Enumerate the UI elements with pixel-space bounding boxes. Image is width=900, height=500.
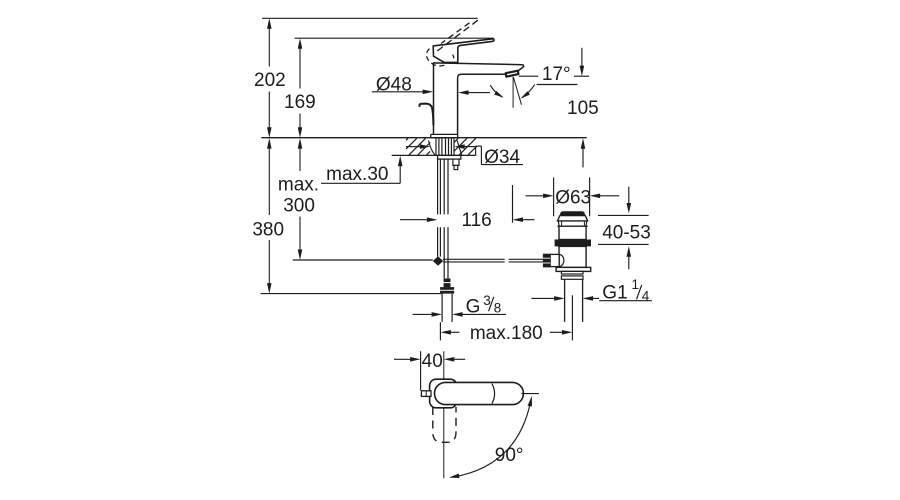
svg-text:8: 8 <box>494 300 502 315</box>
extension line (169 ref, handle top) <box>294 37 493 39</box>
Ø34 label leader <box>475 146 477 155</box>
dimension 380 vertical line <box>267 138 272 149</box>
svg-text:300: 300 <box>283 195 315 216</box>
top view: lever <box>435 382 524 404</box>
water stream plumb line <box>512 77 514 108</box>
dimension Ø63 <box>553 177 555 216</box>
faucet spout underside <box>458 74 506 134</box>
dimension max.180 <box>440 330 451 335</box>
dimension 116 <box>400 219 427 221</box>
svg-text:90°: 90° <box>495 445 524 466</box>
svg-text:Ø48: Ø48 <box>376 75 412 96</box>
dimension 169 vertical line <box>298 38 303 49</box>
water stream 17 degree line <box>513 77 521 105</box>
pop-up pull rod knob <box>419 104 433 125</box>
extension line hose-link level (max.300 ref) <box>293 259 433 261</box>
svg-text:116: 116 <box>461 210 491 231</box>
countertop hatching left <box>406 138 408 140</box>
svg-text:169: 169 <box>284 92 316 113</box>
angle arc left <box>490 85 502 97</box>
lever handle (rest position) <box>433 39 494 63</box>
dimension 202 vertical line <box>267 18 272 29</box>
pop-up rod vertical <box>437 159 439 214</box>
countertop bottom line <box>392 154 476 156</box>
supply hose vertical <box>443 159 445 214</box>
svg-text:max.30: max.30 <box>326 164 388 185</box>
lever handle raised position (dashed) <box>437 20 478 51</box>
extension line top (202 ref, raised handle top) <box>262 17 478 19</box>
dimension Ø34 arrows <box>406 146 421 148</box>
svg-text:1: 1 <box>632 277 640 292</box>
drain valve knurled nut <box>543 254 550 268</box>
svg-text:G1: G1 <box>602 283 627 304</box>
svg-text:380: 380 <box>252 219 284 240</box>
countertop surface line <box>261 137 586 139</box>
horizontal pop-up linkage rod <box>443 258 505 260</box>
top view: handle rotated position (dashed) <box>433 407 456 442</box>
top view: 90 degree arc <box>522 393 540 395</box>
angle arc right <box>522 85 535 98</box>
mounting stud <box>453 159 459 165</box>
svg-text:40-53: 40-53 <box>602 222 651 243</box>
supply hose fitting <box>444 279 451 288</box>
svg-text:202: 202 <box>254 70 286 91</box>
drain valve bottom flange <box>556 267 591 271</box>
aerator outlet <box>506 71 519 77</box>
dimension G1 1/4 <box>531 297 554 299</box>
drain tailpipe G1 1/4 <box>564 279 566 322</box>
shank skirt arcs <box>429 141 435 156</box>
svg-text:40: 40 <box>422 351 443 372</box>
drain valve rod port <box>550 254 559 266</box>
top view: centerline <box>443 351 445 478</box>
supply hose tail (G3/8) <box>441 294 443 322</box>
dimension 40-53 <box>598 214 649 216</box>
drain valve pop-up plug cap <box>560 212 584 216</box>
svg-text:G: G <box>466 297 481 318</box>
faucet base flange <box>431 134 458 137</box>
svg-text:Ø63: Ø63 <box>555 188 591 209</box>
dimension max.300 vertical line <box>298 138 303 149</box>
svg-text:max.: max. <box>278 174 319 195</box>
faucet body outline <box>434 63 524 135</box>
svg-text:3: 3 <box>483 293 491 308</box>
rod junction <box>433 256 443 265</box>
countertop hatching right <box>454 138 458 142</box>
svg-text:max.180: max.180 <box>470 323 543 344</box>
handle base raised outline (dashed) <box>426 49 447 66</box>
svg-text:4: 4 <box>642 288 650 303</box>
svg-text:Ø34: Ø34 <box>484 147 520 168</box>
mounting nut <box>438 155 461 159</box>
svg-text:17°: 17° <box>542 64 571 85</box>
extension line spout axis <box>512 185 514 223</box>
top view: dimension 40 <box>420 351 422 390</box>
drain valve plug neck <box>557 216 587 221</box>
drain valve seal ring <box>555 240 591 247</box>
angle reference line <box>537 84 578 86</box>
threaded shank in countertop hole <box>435 138 437 155</box>
dimension G3/8 <box>413 313 432 315</box>
extension line hose end level (380 ref) <box>261 293 442 295</box>
svg-text:105: 105 <box>567 98 599 119</box>
drain valve lower body <box>559 246 586 267</box>
top view: pull rod stub <box>421 391 431 397</box>
top view: handle boss <box>430 379 457 408</box>
drain valve upper body <box>557 225 587 227</box>
